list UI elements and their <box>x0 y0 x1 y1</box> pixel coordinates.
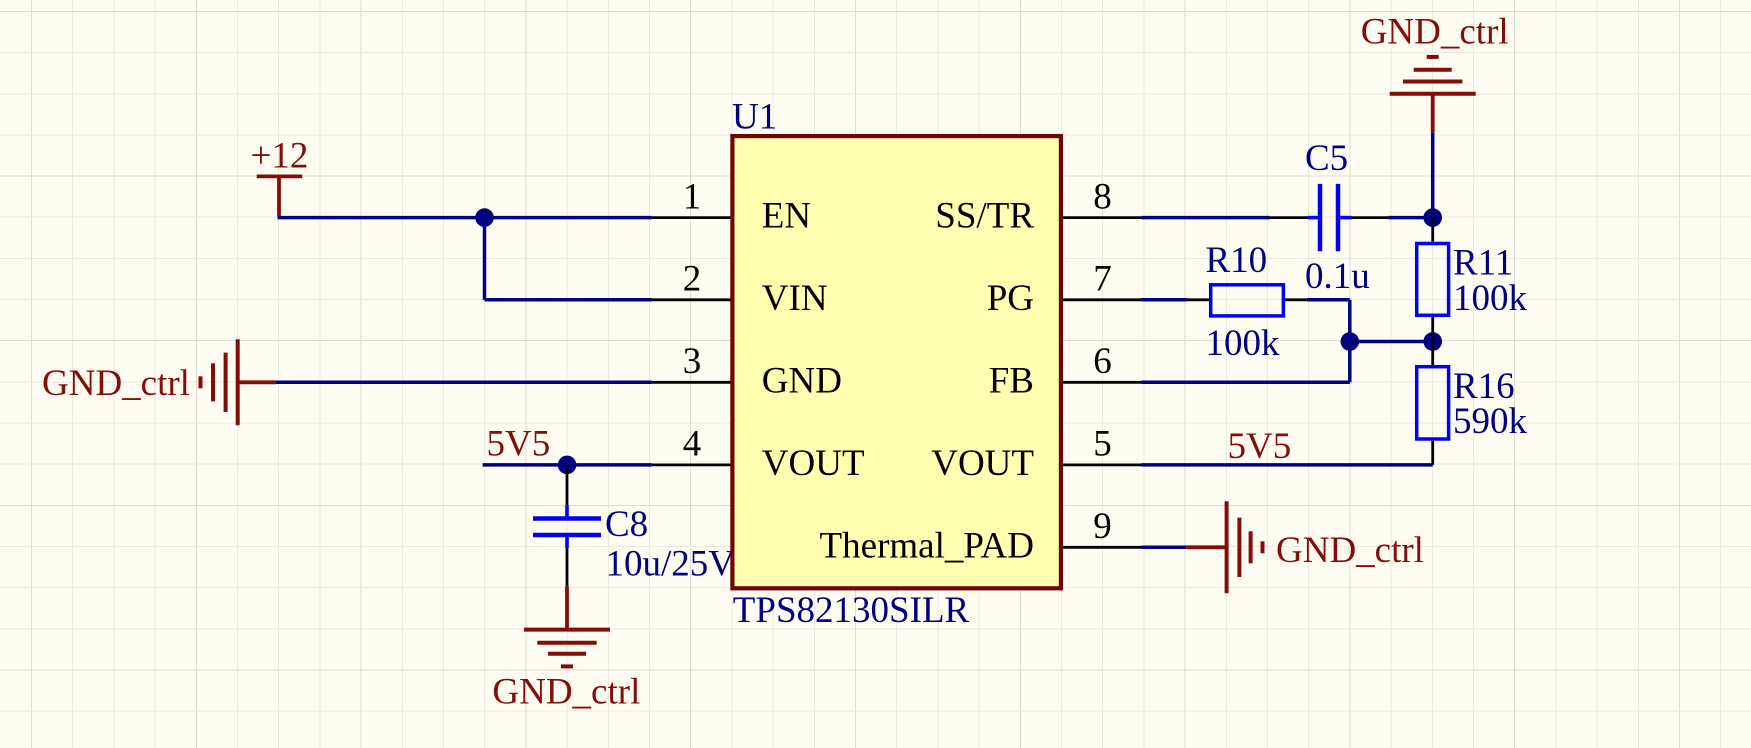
svg-text:GND_ctrl: GND_ctrl <box>42 363 190 404</box>
svg-text:2: 2 <box>683 259 702 300</box>
net label 5V5 right <box>1228 426 1292 467</box>
svg-text:FB: FB <box>989 360 1034 401</box>
svg-text:6: 6 <box>1093 341 1112 382</box>
pin 6 FB <box>989 341 1142 401</box>
svg-text:EN: EN <box>762 196 811 237</box>
capacitor C8 <box>533 465 735 586</box>
junction FB node <box>1341 332 1360 351</box>
wire pin6 FB <box>1141 381 1349 385</box>
wire pin9 to GND <box>1141 546 1186 550</box>
svg-text:5: 5 <box>1093 424 1112 465</box>
svg-text:GND_ctrl: GND_ctrl <box>1361 12 1509 53</box>
junction SS/TR node <box>1423 208 1442 227</box>
power port GND_ctrl left <box>42 339 276 425</box>
net label 5V5 left <box>487 424 551 465</box>
wire pin7 to R10 <box>1141 298 1187 302</box>
svg-text:1: 1 <box>683 176 702 217</box>
svg-text:4: 4 <box>683 424 702 465</box>
svg-text:PG: PG <box>987 278 1034 319</box>
wire GND_ctrl to pin3 <box>276 381 652 385</box>
wire +12 rail to pin1 <box>278 216 652 220</box>
pin 7 PG <box>987 259 1142 319</box>
svg-text:5V5: 5V5 <box>487 424 551 465</box>
svg-text:R10: R10 <box>1206 240 1268 281</box>
svg-text:10u/25V: 10u/25V <box>606 544 736 585</box>
resistor R11 <box>1417 218 1528 342</box>
svg-text:7: 7 <box>1093 259 1112 300</box>
power port GND_ctrl top <box>1361 12 1509 133</box>
wire R10 right down to FB node <box>1307 300 1350 383</box>
pin 1 EN <box>652 176 811 236</box>
svg-text:VOUT: VOUT <box>931 443 1034 484</box>
pin 9 Thermal_PAD <box>820 506 1142 566</box>
wire pin5 VOUT 5V5 <box>1141 463 1432 467</box>
svg-text:GND_ctrl: GND_ctrl <box>1276 530 1424 571</box>
svg-text:590k: 590k <box>1453 401 1528 442</box>
wire pin8 to C5 <box>1141 216 1270 220</box>
svg-text:100k: 100k <box>1206 323 1281 364</box>
pin 8 SS/TR <box>935 176 1141 236</box>
svg-text:VOUT: VOUT <box>762 443 865 484</box>
svg-text:GND_ctrl: GND_ctrl <box>492 672 640 713</box>
svg-text:C8: C8 <box>605 504 648 545</box>
svg-text:GND: GND <box>762 360 842 401</box>
pin 5 VOUT <box>931 424 1141 484</box>
svg-text:3: 3 <box>683 341 702 382</box>
svg-text:9: 9 <box>1093 506 1112 547</box>
svg-text:U1: U1 <box>732 96 777 137</box>
pin 4 VOUT <box>652 424 865 484</box>
wire top GND rail down <box>1431 132 1435 217</box>
svg-text:SS/TR: SS/TR <box>935 196 1034 237</box>
resistor R10 <box>1187 240 1307 364</box>
svg-text:+12: +12 <box>251 135 309 176</box>
svg-text:100k: 100k <box>1453 278 1528 319</box>
wire FB node to divider node <box>1350 340 1433 344</box>
junction at C8 tap <box>558 456 577 475</box>
svg-text:C5: C5 <box>1305 138 1348 179</box>
pin 3 GND <box>652 341 842 401</box>
wire 5V5 to pin4 <box>483 463 652 467</box>
svg-text:Thermal_PAD: Thermal_PAD <box>820 525 1034 566</box>
junction on +12 rail <box>475 208 494 227</box>
wire junction down to VIN <box>485 218 652 300</box>
resistor R16 <box>1417 342 1528 465</box>
power port GND_ctrl right <box>1186 501 1424 593</box>
op-amp/regulator U1 TPS82130SILR body <box>732 96 1061 631</box>
svg-text:8: 8 <box>1093 176 1112 217</box>
pin 2 VIN <box>652 259 828 319</box>
power port +12 <box>251 135 309 216</box>
svg-text:VIN: VIN <box>762 278 828 319</box>
capacitor C5 <box>1270 138 1389 297</box>
svg-text:0.1u: 0.1u <box>1305 256 1370 297</box>
wire C5 to SS/TR node <box>1388 216 1432 220</box>
power port GND_ctrl bottom <box>492 586 640 712</box>
svg-text:5V5: 5V5 <box>1228 426 1292 467</box>
junction divider node <box>1423 332 1442 351</box>
svg-text:TPS82130SILR: TPS82130SILR <box>733 590 970 631</box>
